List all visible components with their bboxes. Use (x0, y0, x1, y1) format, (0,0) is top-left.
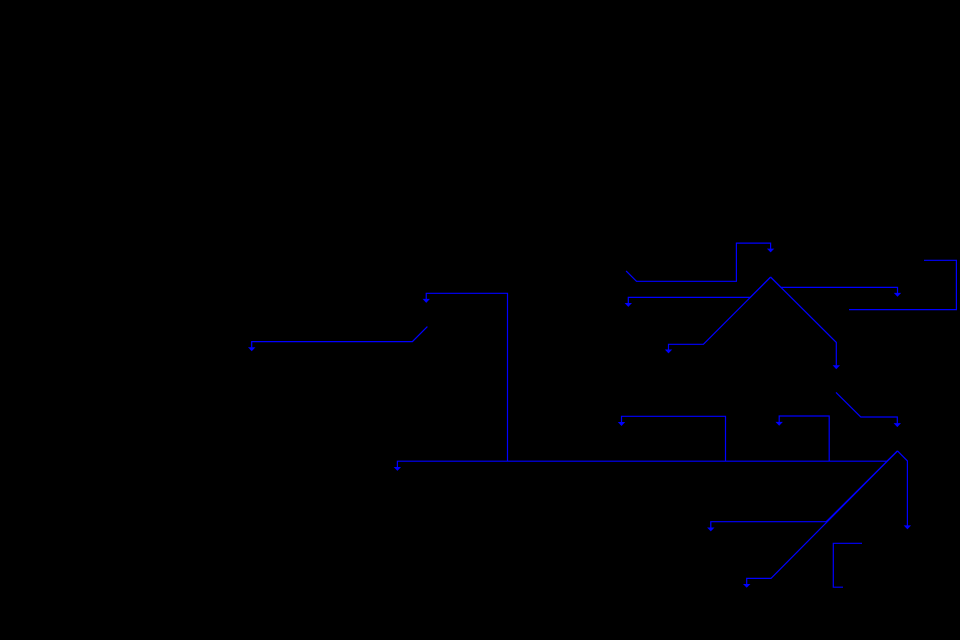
edge E4 (669, 277, 771, 350)
edge E7 (622, 416, 726, 461)
edge E15 bracket top right (849, 260, 956, 309)
edge E6 (836, 392, 897, 423)
arrowhead E12 (707, 528, 714, 532)
edge E3 (628, 277, 770, 303)
arrowhead E10 (394, 467, 401, 471)
edge E2 (771, 277, 898, 293)
arrowhead E4 (665, 350, 672, 354)
edge E12 (711, 451, 898, 528)
edge E10 (397, 451, 897, 467)
edge E1 tail diagonal (626, 243, 771, 281)
arrowhead E9 (423, 299, 430, 303)
arrowhead E3 (625, 303, 632, 307)
arrowhead E14 (904, 525, 911, 529)
edge E13 (747, 451, 898, 584)
edge E5 (771, 277, 837, 365)
arrowhead E11 (248, 347, 255, 351)
arrowhead E13 (743, 584, 750, 588)
edge E8 (779, 416, 829, 461)
edge E11 (252, 327, 428, 348)
edge E16 bracket bottom right (833, 543, 862, 587)
arrowhead E7 (618, 422, 625, 426)
arrowhead E6 (894, 423, 901, 427)
edge E9 (426, 293, 507, 461)
arrowhead E5 (833, 365, 840, 369)
arrowhead E2 (894, 293, 901, 297)
arrowhead E8 (776, 422, 783, 426)
arrowhead E1 (767, 249, 774, 253)
edge E14 (898, 451, 908, 526)
